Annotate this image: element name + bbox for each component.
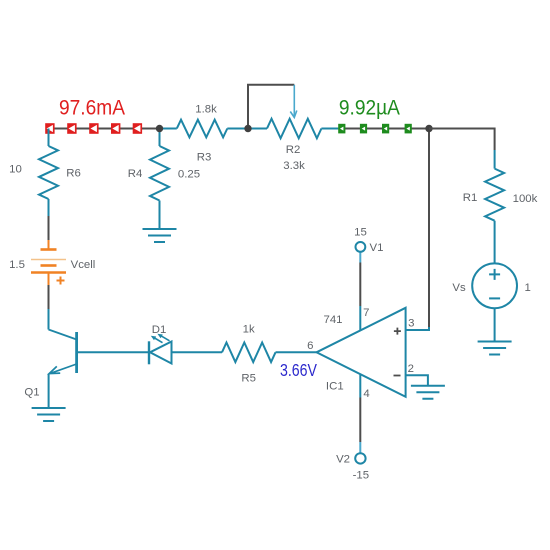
wire: top-left rail with red current markers — [49, 128, 160, 130]
resistor R3 1.8k — [160, 128, 177, 130]
svg-text:1: 1 — [525, 282, 531, 294]
pin 2 wire to ground — [406, 375, 428, 386]
svg-text:7: 7 — [363, 307, 369, 319]
svg-text:-15: -15 — [353, 470, 369, 482]
ground (pin 2) — [411, 386, 445, 399]
terminal V2 (-15V) — [355, 453, 365, 463]
svg-text:741: 741 — [323, 314, 342, 326]
svg-text:Q1: Q1 — [24, 387, 39, 399]
svg-text:0.25: 0.25 — [178, 168, 200, 180]
svg-text:R2: R2 — [286, 144, 301, 156]
svg-text:100k: 100k — [513, 193, 538, 205]
svg-text:97.6mA: 97.6mA — [59, 96, 126, 120]
svg-text:2: 2 — [408, 363, 414, 375]
wire: pot feedback (left terminal to wiper) — [248, 85, 294, 129]
wire: Q1 base to D1 — [77, 351, 149, 353]
wire: R6 to Vcell — [48, 216, 50, 240]
svg-text:9.92µA: 9.92µA — [339, 96, 401, 120]
svg-text:R3: R3 — [197, 151, 212, 163]
svg-text:10: 10 — [9, 164, 22, 176]
svg-text:15: 15 — [354, 227, 367, 239]
pot wiper arrow — [293, 85, 295, 116]
svg-text:4: 4 — [363, 388, 369, 400]
pin 3 wire (non-inverting input) — [406, 327, 429, 330]
svg-text:R5: R5 — [241, 373, 256, 385]
svg-text:IC1: IC1 — [326, 381, 344, 393]
wire: Vcell to Q1 collector — [48, 285, 50, 309]
op-amp IC1 (741, mirrored, output left) — [317, 308, 406, 397]
junction node dots — [156, 125, 163, 132]
svg-text:1.8k: 1.8k — [195, 104, 217, 116]
svg-text:D1: D1 — [152, 324, 167, 336]
svg-text:1k: 1k — [243, 324, 255, 336]
resistor R5 — [222, 343, 276, 363]
LED D1 — [148, 341, 150, 364]
potentiometer R2 3.3k — [248, 128, 267, 130]
svg-text:3.66V: 3.66V — [280, 360, 317, 380]
wire: D1 to R5 — [172, 351, 223, 353]
svg-text:6: 6 — [307, 340, 313, 352]
svg-text:3: 3 — [408, 318, 414, 330]
svg-text:R4: R4 — [128, 168, 143, 180]
ground (Q1 emitter) — [32, 408, 66, 421]
ground (Vs) — [478, 342, 512, 355]
svg-text:3.3k: 3.3k — [283, 160, 305, 172]
svg-text:Vs: Vs — [452, 282, 466, 294]
svg-text:Vcell: Vcell — [71, 259, 96, 271]
svg-text:V1: V1 — [370, 242, 384, 254]
resistor R4 0.25 — [159, 129, 161, 147]
terminal V1 (15V) — [356, 242, 366, 252]
transistor Q1 (NPN) — [49, 330, 77, 340]
pin 4 wire to V2 — [359, 375, 361, 398]
battery Vcell 1.5V — [48, 240, 50, 250]
svg-text:1.5: 1.5 — [9, 259, 25, 271]
svg-text:V2: V2 — [336, 454, 350, 466]
resistor R6 — [48, 129, 50, 147]
current probe markers (red), 97.6mA flow — [45, 123, 54, 134]
wire: R5 to op-amp output (node 6) — [276, 351, 317, 353]
ground (R4) — [143, 229, 177, 242]
current probe markers (green), 9.92uA flow — [338, 124, 345, 134]
wire: green current marker segment — [338, 128, 429, 130]
resistor R1 100k — [494, 150, 496, 169]
svg-text:R1: R1 — [463, 192, 478, 204]
pin 7 wire to V1 — [359, 306, 361, 331]
voltage source Vs 1V — [472, 263, 517, 308]
svg-text:R6: R6 — [66, 168, 81, 180]
wire: top-right to R1 — [429, 129, 495, 151]
